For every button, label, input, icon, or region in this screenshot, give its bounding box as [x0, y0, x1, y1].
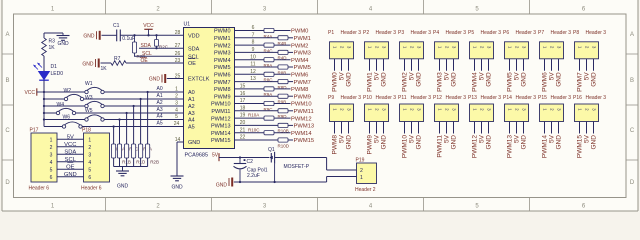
svg-text:GND: GND [416, 135, 423, 150]
svg-text:PWM11: PWM11 [211, 109, 230, 115]
wire P6 pin2 [516, 59, 518, 71]
svg-text:P15: P15 [538, 95, 547, 101]
svg-text:GND: GND [82, 61, 94, 67]
svg-text:R2B: R2B [150, 160, 159, 165]
svg-text:PWM0: PWM0 [291, 29, 308, 35]
svg-text:W3: W3 [85, 95, 93, 101]
svg-text:D1: D1 [51, 64, 58, 70]
connector P5 [470, 42, 494, 59]
svg-text:P18: P18 [82, 128, 91, 134]
svg-text:5V: 5V [339, 134, 346, 143]
svg-text:GND: GND [57, 41, 69, 47]
svg-text:6: 6 [252, 25, 255, 31]
wire P10 pin1 [369, 122, 371, 134]
wire R8A to PWM4 [274, 59, 291, 61]
wire P17-P18 GND [57, 176, 84, 178]
svg-text:PWM12: PWM12 [211, 116, 231, 122]
resistor R9A [264, 87, 274, 91]
svg-text:PWM5: PWM5 [294, 65, 311, 71]
svg-text:PWM4: PWM4 [472, 72, 479, 92]
svg-text:P2: P2 [363, 30, 369, 36]
power port VCC left [36, 88, 38, 95]
wire P13 pin3 [488, 122, 490, 134]
svg-text:P4: P4 [433, 30, 439, 36]
junction VCC rail A0 [43, 91, 45, 93]
svg-text:16: 16 [240, 91, 246, 97]
ground below U1 [171, 175, 184, 177]
svg-text:C: C [5, 128, 10, 134]
svg-text:PWM9: PWM9 [367, 135, 374, 155]
svg-text:C: C [630, 128, 635, 134]
svg-text:A: A [630, 32, 634, 38]
svg-text:SDA: SDA [64, 150, 76, 156]
resistor R1A [112, 144, 116, 158]
connector P18 [84, 133, 110, 182]
svg-text:Header 3: Header 3 [551, 30, 572, 36]
wire SDA [139, 47, 184, 49]
svg-text:VCC: VCC [143, 23, 154, 29]
svg-text:A4: A4 [157, 114, 163, 120]
connector P6 [505, 42, 529, 59]
wire P16 pin1 [579, 122, 581, 134]
svg-text:PWM7: PWM7 [214, 80, 231, 86]
svg-text:D: D [5, 180, 10, 186]
wire pin 20 to R10B [235, 124, 279, 126]
connector P16 [575, 104, 599, 122]
wire VDD net [120, 34, 183, 36]
wire R10D to PWM15 [288, 139, 293, 141]
wire R3 top to GND corner [43, 33, 45, 38]
wire R2B to bus [147, 158, 149, 167]
svg-text:PWM8: PWM8 [332, 135, 339, 155]
svg-text:5: 5 [88, 167, 91, 173]
wire P10 pin2 [376, 122, 378, 134]
junction SDA pullup [155, 47, 157, 49]
svg-text:1K: 1K [49, 45, 56, 51]
svg-text:Header 3: Header 3 [586, 30, 607, 36]
resistor R10D [278, 138, 288, 142]
svg-text:C2: C2 [247, 159, 254, 165]
svg-text:GND: GND [521, 72, 528, 87]
wire P4 pin3 [453, 59, 455, 71]
svg-text:PWM14: PWM14 [542, 135, 549, 159]
svg-text:PWM0: PWM0 [214, 29, 231, 35]
wire R4D to PWM3 [288, 51, 293, 53]
power port GND C2 [228, 178, 230, 186]
svg-text:U1: U1 [184, 22, 191, 28]
wire P12 pin3 [453, 122, 455, 134]
svg-text:GND: GND [117, 184, 129, 190]
svg-text:OE: OE [66, 165, 75, 171]
svg-text:1: 1 [88, 137, 91, 143]
svg-text:Header 3: Header 3 [446, 30, 467, 36]
svg-text:PWM3: PWM3 [437, 72, 444, 92]
svg-text:GND: GND [188, 140, 200, 146]
svg-text:2: 2 [88, 145, 91, 151]
wire pin 6 to R4A [235, 30, 265, 32]
wire R1C to bus [126, 158, 128, 167]
svg-text:W4: W4 [57, 102, 65, 108]
wire P15 pin3 [558, 122, 560, 134]
svg-text:5V: 5V [374, 134, 381, 143]
wire A1 row left [44, 98, 64, 100]
svg-text:Header 3: Header 3 [481, 95, 502, 101]
svg-text:A5: A5 [188, 125, 195, 131]
wire R2A to bus [140, 158, 142, 167]
svg-text:R7: R7 [114, 56, 121, 62]
svg-text:MOSFET-P: MOSFET-P [284, 164, 310, 170]
wire pin 17 to R9C [235, 103, 265, 105]
svg-text:5: 5 [175, 114, 178, 120]
svg-text:P19: P19 [356, 157, 365, 163]
resistor R7 [111, 61, 126, 66]
svg-text:GND: GND [591, 72, 598, 87]
svg-text:PWM2: PWM2 [291, 43, 308, 49]
svg-text:P10: P10 [363, 95, 372, 101]
svg-text:PWM3: PWM3 [294, 51, 311, 57]
wire P7 pin3 [558, 59, 560, 71]
resistor R8A [264, 58, 274, 62]
svg-text:Header 3: Header 3 [516, 95, 537, 101]
svg-text:1: 1 [360, 175, 363, 181]
svg-text:PWM11: PWM11 [294, 109, 314, 115]
svg-text:EXTCLK: EXTCLK [188, 77, 210, 83]
power port GND C1 [96, 31, 98, 39]
svg-text:P3: P3 [398, 30, 404, 36]
svg-text:B: B [5, 78, 9, 84]
wire A2 row right [104, 105, 183, 107]
wire R8C to PWM6 [274, 73, 291, 75]
svg-text:GND: GND [556, 135, 563, 150]
wire R9C to PWM10 [274, 103, 291, 105]
wire P5 pin2 [481, 59, 483, 71]
connector P11 [400, 104, 424, 122]
svg-text:SDA: SDA [141, 43, 152, 49]
connector P14 [505, 104, 529, 122]
wire P6 pin1 [509, 59, 511, 71]
wire P8 pin1 [579, 59, 581, 71]
svg-text:5V: 5V [584, 72, 591, 81]
wire P13 pin2 [481, 122, 483, 134]
junction VCC rail A2 [43, 105, 45, 107]
resistor R2C [156, 35, 158, 39]
connector P2 [365, 42, 389, 59]
svg-text:A: A [5, 32, 9, 38]
resistor R4B [278, 36, 288, 40]
svg-text:P7: P7 [538, 30, 544, 36]
wire pin 13 to R8D [235, 81, 279, 83]
resistor R9B [278, 94, 288, 98]
svg-text:A2: A2 [188, 104, 195, 110]
svg-text:PWM10: PWM10 [291, 102, 312, 108]
svg-text:7: 7 [252, 32, 255, 38]
wire A3 row left [44, 112, 56, 114]
connector P8 [575, 42, 599, 59]
svg-text:GND: GND [216, 183, 228, 189]
wire P14 pin2 [516, 122, 518, 134]
svg-text:PWM6: PWM6 [542, 72, 549, 92]
wire pin 21 to R10C [235, 132, 265, 134]
svg-text:5V: 5V [584, 134, 591, 143]
resistor R10C [264, 131, 274, 135]
wire A2 tap down [133, 106, 135, 144]
svg-text:19: 19 [240, 113, 246, 119]
svg-text:P14: P14 [503, 95, 512, 101]
junction VCC rail A1 [43, 98, 45, 100]
svg-text:1K: 1K [101, 66, 108, 72]
svg-text:5V: 5V [339, 72, 346, 81]
ground top-left [62, 33, 64, 36]
svg-text:SDA: SDA [188, 46, 200, 52]
wire R8B to PWM5 [288, 66, 293, 68]
svg-text:P11: P11 [398, 95, 407, 101]
connector P7 [540, 42, 564, 59]
wire P3 pin3 [418, 59, 420, 71]
svg-text:Header 3: Header 3 [481, 30, 502, 36]
junction Q1 gate GND [273, 181, 275, 183]
svg-text:GND: GND [486, 135, 493, 150]
wire A4 tap down [119, 120, 121, 145]
wire R4C to PWM2 [274, 44, 291, 46]
svg-text:1: 1 [175, 86, 178, 92]
svg-text:A5: A5 [157, 121, 163, 127]
wire A3 row right [76, 112, 184, 114]
svg-text:PWM3: PWM3 [214, 51, 231, 57]
wire LED to VCC rail [43, 80, 45, 92]
junction VDD R2B [133, 34, 135, 36]
svg-text:PWM9: PWM9 [294, 94, 311, 100]
switch W6 [62, 125, 65, 128]
wire P16 pin3 [593, 122, 595, 134]
svg-text:R10D: R10D [278, 143, 290, 148]
svg-text:GND: GND [64, 172, 77, 178]
svg-text:PWM7: PWM7 [577, 72, 584, 92]
svg-text:8: 8 [252, 40, 255, 46]
resistor R8C [264, 72, 274, 76]
svg-text:PWM2: PWM2 [402, 72, 409, 92]
svg-text:PWM15: PWM15 [577, 135, 584, 159]
resistor R1D [132, 144, 136, 158]
connector P10 [365, 104, 389, 122]
svg-text:A1: A1 [188, 97, 195, 103]
wire P4 pin1 [439, 59, 441, 71]
svg-text:PWM15: PWM15 [211, 138, 231, 144]
resistor R4D [278, 50, 288, 54]
svg-text:Header 3: Header 3 [376, 30, 397, 36]
svg-text:5V: 5V [479, 134, 486, 143]
connector P4 [435, 42, 459, 59]
svg-text:GND: GND [171, 185, 183, 191]
svg-text:A3: A3 [188, 111, 195, 117]
svg-text:B: B [630, 78, 634, 84]
svg-text:PWM8: PWM8 [291, 87, 308, 93]
wire P5 pin3 [488, 59, 490, 71]
connector P15 [540, 104, 564, 122]
svg-text:PWM10: PWM10 [211, 102, 231, 108]
svg-text:GND: GND [451, 135, 458, 150]
svg-text:A3: A3 [157, 107, 163, 113]
svg-text:11: 11 [250, 62, 255, 68]
VCC rail vertical [43, 92, 45, 127]
svg-text:GND: GND [346, 135, 353, 150]
wire A5 tap down [113, 127, 115, 145]
svg-text:W1: W1 [85, 81, 93, 87]
switch W2 [64, 97, 67, 100]
svg-text:SCL: SCL [142, 51, 152, 57]
resistor R4A [264, 28, 274, 32]
svg-text:5V: 5V [549, 134, 556, 143]
svg-text:5: 5 [50, 167, 53, 173]
svg-text:OE: OE [188, 61, 196, 67]
resistor R10A [264, 116, 274, 120]
svg-text:PWM0: PWM0 [332, 72, 339, 92]
svg-text:5V: 5V [444, 72, 451, 81]
svg-text:2: 2 [360, 168, 363, 174]
resistor R4C [264, 43, 274, 47]
wire pin 9 to R4D [235, 51, 279, 53]
svg-text:6: 6 [50, 175, 53, 181]
svg-text:13: 13 [250, 76, 256, 82]
wire R4A to PWM0 [274, 30, 291, 32]
wire P10 pin3 [383, 122, 385, 134]
wire pin 18 to R9D [235, 110, 279, 112]
wire P9 pin1 [334, 122, 336, 134]
switch W1 [85, 90, 88, 93]
wire R10C to PWM14 [274, 132, 291, 134]
wire P13 pin1 [474, 122, 476, 134]
transistor Q1 [270, 153, 272, 163]
svg-text:PWM15: PWM15 [294, 138, 315, 144]
wire P1 pin2 [341, 59, 343, 71]
junction A1 tap [139, 98, 141, 100]
wire P3 pin2 [411, 59, 413, 71]
connector P17 [31, 133, 57, 182]
switch W5 [85, 118, 88, 121]
resistor R9C [264, 101, 274, 105]
wire pin 12 to R8C [235, 73, 265, 75]
svg-text:P13: P13 [468, 95, 477, 101]
junction A4 tap [118, 118, 120, 120]
junction A3 tap [125, 112, 127, 114]
svg-text:10: 10 [250, 54, 256, 60]
wire P7 pin1 [544, 59, 546, 71]
wire P7 pin2 [551, 59, 553, 71]
svg-text:21: 21 [240, 127, 246, 133]
resistor R8B [278, 65, 288, 69]
svg-text:3: 3 [50, 152, 53, 158]
svg-text:SCL: SCL [188, 55, 199, 61]
svg-text:Header 3: Header 3 [516, 30, 537, 36]
wire P2 pin2 [376, 59, 378, 71]
switch W4 [56, 111, 59, 114]
junction A5 tap [112, 125, 114, 127]
wire R4B to PWM1 [288, 37, 293, 39]
svg-text:P12: P12 [433, 95, 442, 101]
svg-text:22: 22 [240, 135, 246, 141]
svg-text:R10C: R10C [248, 127, 260, 132]
svg-text:A1: A1 [157, 93, 163, 99]
wire pulldown bus [114, 166, 148, 168]
wire pin 7 to R4B [235, 37, 279, 39]
wire pin 10 to R8A [235, 59, 265, 61]
wire P17-P18 SCL [57, 161, 84, 163]
svg-text:5V: 5V [444, 134, 451, 143]
svg-text:OE: OE [141, 58, 149, 64]
wire A4 row left [44, 119, 85, 121]
resistor R1B [117, 144, 121, 158]
svg-text:PWM5: PWM5 [507, 72, 514, 92]
svg-text:5V: 5V [409, 134, 416, 143]
wire P15 pin2 [551, 122, 553, 134]
wire P5 pin1 [474, 59, 476, 71]
connector P13 [470, 104, 494, 122]
wire A0 row right [104, 91, 183, 93]
wire bus to ground [122, 167, 124, 172]
svg-text:PWM1: PWM1 [294, 36, 311, 42]
svg-text:Header 3: Header 3 [586, 95, 607, 101]
svg-text:24: 24 [174, 121, 180, 127]
svg-text:C1: C1 [113, 23, 120, 29]
svg-text:1: 1 [50, 137, 53, 143]
wire R9D to PWM11 [288, 110, 293, 112]
wire R10A to PWM12 [274, 117, 291, 119]
svg-text:PWM6: PWM6 [214, 73, 231, 79]
svg-text:GND: GND [416, 72, 423, 87]
wire U1 GND pin [177, 141, 184, 143]
wire GND to C1 [102, 34, 117, 36]
wire R9A to PWM8 [274, 88, 291, 90]
svg-text:PWM14: PWM14 [291, 131, 312, 137]
svg-text:P5: P5 [468, 30, 474, 36]
svg-text:P6: P6 [503, 30, 509, 36]
connector P9 [330, 104, 354, 122]
svg-text:5V: 5V [212, 153, 219, 159]
resistor R10B [278, 123, 288, 127]
svg-text:PWM8: PWM8 [214, 87, 231, 93]
power port GND R7 [95, 59, 97, 67]
wire to P19 pin2 [326, 158, 328, 171]
wire A5 row right [82, 126, 183, 128]
svg-text:PWM1: PWM1 [367, 72, 374, 92]
junction A2 tap [132, 105, 134, 107]
svg-text:PWM13: PWM13 [507, 135, 514, 159]
resistor R3 [42, 38, 47, 56]
wire P12 pin2 [446, 122, 448, 134]
svg-text:Header 6: Header 6 [81, 186, 102, 192]
svg-text:20: 20 [240, 120, 246, 126]
wire A0 row left [44, 91, 85, 93]
svg-text:18: 18 [240, 105, 246, 111]
svg-text:SCL: SCL [65, 157, 77, 163]
svg-text:Header 6: Header 6 [29, 186, 50, 192]
svg-text:17: 17 [240, 98, 246, 104]
svg-text:R10A: R10A [248, 113, 259, 118]
svg-text:W2: W2 [64, 88, 72, 94]
wire pin 11 to R8B [235, 66, 279, 68]
wire P11 pin2 [411, 122, 413, 134]
svg-text:Header 3: Header 3 [341, 95, 362, 101]
wire P3 pin1 [404, 59, 406, 71]
svg-text:PCA9685: PCA9685 [185, 153, 209, 159]
wire GND rail [234, 181, 327, 183]
svg-text:Header 3: Header 3 [551, 95, 572, 101]
junction A0 tap [146, 91, 148, 93]
svg-text:Header 3: Header 3 [411, 95, 432, 101]
svg-text:PWM12: PWM12 [472, 135, 479, 159]
svg-text:P8: P8 [573, 30, 579, 36]
wire R1A to bus [113, 158, 115, 167]
svg-text:3: 3 [175, 100, 178, 106]
